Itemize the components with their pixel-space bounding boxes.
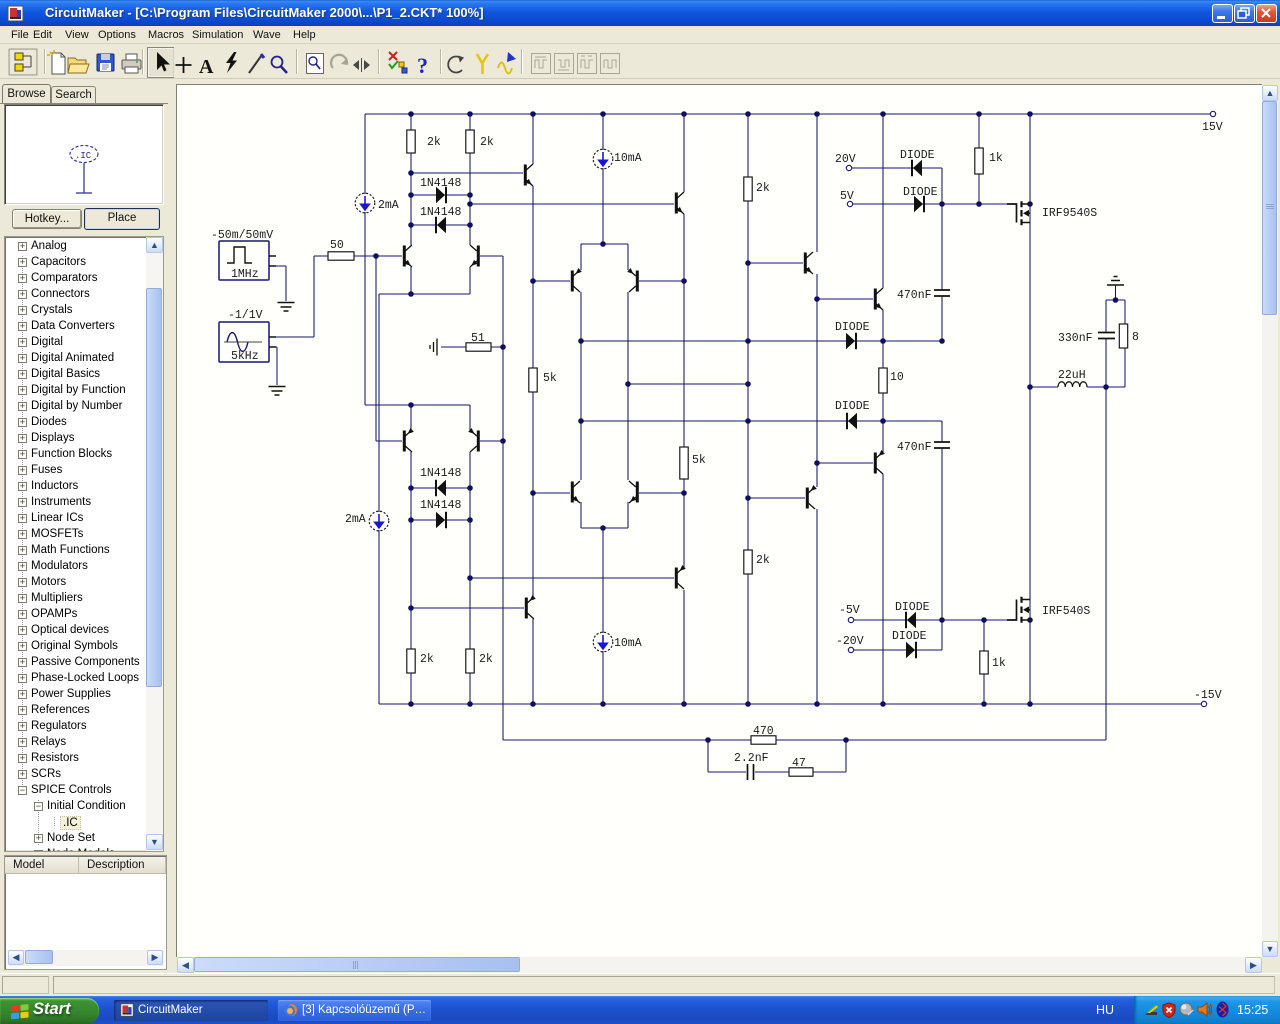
svg-text:1MHz: 1MHz [231, 268, 259, 281]
svg-text:1k: 1k [989, 152, 1003, 165]
svg-text:A: A [199, 56, 214, 78]
svg-text:1N4148: 1N4148 [420, 499, 462, 512]
svg-text:DIODE: DIODE [835, 400, 870, 413]
svg-text:2k: 2k [479, 653, 493, 666]
svg-text:330nF: 330nF [1058, 332, 1093, 345]
svg-text:5kHz: 5kHz [231, 350, 259, 363]
svg-text:-1/1V: -1/1V [228, 309, 263, 322]
svg-text:DIODE: DIODE [835, 321, 870, 334]
svg-text:2mA: 2mA [345, 513, 366, 526]
svg-text:2.2nF: 2.2nF [734, 752, 769, 765]
svg-text:20V: 20V [835, 153, 856, 166]
svg-text:22uH: 22uH [1058, 369, 1086, 382]
svg-text:DIODE: DIODE [900, 149, 935, 162]
svg-text:1N4148: 1N4148 [420, 467, 462, 480]
svg-text:IRF9540S: IRF9540S [1042, 207, 1097, 220]
svg-text:DIODE: DIODE [903, 186, 938, 199]
svg-text:50: 50 [330, 239, 344, 252]
svg-text:-15V: -15V [1194, 689, 1222, 702]
svg-text:-20V: -20V [836, 635, 864, 648]
svg-text:2mA: 2mA [378, 199, 399, 212]
svg-text:51: 51 [471, 332, 485, 345]
svg-text:8: 8 [1132, 331, 1139, 344]
svg-text:2k: 2k [480, 136, 494, 149]
svg-text:2k: 2k [756, 182, 770, 195]
svg-text:5V: 5V [840, 190, 854, 203]
svg-text:470nF: 470nF [897, 441, 932, 454]
svg-text:1k: 1k [992, 657, 1006, 670]
svg-text:47: 47 [792, 757, 806, 770]
svg-text:1N4148: 1N4148 [420, 177, 462, 190]
svg-text:-50m/50mV: -50m/50mV [211, 229, 273, 242]
svg-text:?: ? [417, 53, 428, 78]
svg-text:470nF: 470nF [897, 289, 932, 302]
svg-text:5k: 5k [543, 372, 557, 385]
svg-text:10: 10 [890, 371, 904, 384]
svg-text:10mA: 10mA [614, 637, 642, 650]
svg-text:IRF540S: IRF540S [1042, 605, 1090, 618]
svg-text:470: 470 [753, 725, 774, 738]
svg-text:5k: 5k [692, 454, 706, 467]
svg-text:15V: 15V [1202, 121, 1223, 134]
svg-text:2k: 2k [756, 554, 770, 567]
svg-text:DIODE: DIODE [892, 630, 927, 643]
svg-text:2k: 2k [420, 653, 434, 666]
svg-text:10mA: 10mA [614, 152, 642, 165]
svg-text:2k: 2k [427, 136, 441, 149]
svg-text:-5V: -5V [839, 604, 860, 617]
svg-text:.IC: .IC [75, 151, 92, 161]
svg-text:DIODE: DIODE [895, 601, 930, 614]
svg-text:1N4148: 1N4148 [420, 206, 462, 219]
